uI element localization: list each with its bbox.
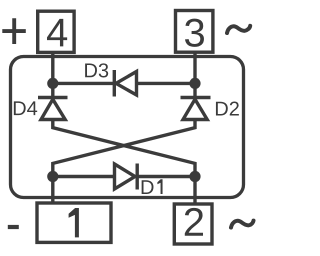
diode D3 triangle (116, 72, 137, 96)
label D1 digit 1 (157, 179, 162, 194)
pin 2 box (174, 204, 212, 244)
wire node AC1 to D2 cathode (193, 83, 196, 97)
wire node minus to pin1 (51, 177, 54, 204)
diode D4 cathode bar (38, 96, 68, 99)
wire pin3 to node AC1 (193, 52, 196, 83)
diode D2 cathode bar (181, 96, 211, 99)
wire pin4 to node plus (51, 52, 54, 83)
wire top rail right (D3 anode to node AC1) (137, 82, 196, 85)
label D2 digit 2 (230, 102, 239, 116)
label D3 letter D (85, 64, 97, 78)
plus symbol (pin 4 polarity) (2, 18, 26, 44)
diode D4 triangle (41, 99, 65, 119)
wire D4 anode to node AC2 (diagonal) (53, 120, 195, 177)
label D4 letter D (14, 101, 26, 115)
wire bottom rail left (node minus to D1 anode) (53, 175, 115, 178)
node AC1 junction dot (189, 78, 200, 89)
label D3 digit 3 (99, 63, 108, 77)
node AC2 junction dot (189, 171, 200, 182)
label D1 letter D (142, 180, 154, 194)
AC tilde symbol (pin 2) (231, 221, 254, 228)
label D4 digit 4 (27, 101, 37, 115)
pin 3 box (176, 11, 213, 53)
node plus junction dot (47, 78, 58, 89)
node minus junction dot (47, 171, 58, 182)
diode D3 cathode bar (113, 70, 116, 97)
pin 1 number (69, 208, 79, 237)
diode D1 triangle (115, 164, 136, 189)
pin 4 number (47, 19, 67, 47)
wire node AC2 to pin2 (193, 177, 196, 205)
label D2 letter D (216, 102, 228, 116)
pin 4 box (38, 11, 74, 52)
wire top rail left (node plus to D3 cathode) (53, 82, 115, 85)
pin 2 number (185, 208, 203, 236)
wire bottom rail right (D1 cathode to node AC2) (137, 175, 195, 178)
minus symbol (pin 1 polarity) (8, 225, 19, 229)
wire node plus to D4 cathode (51, 83, 54, 97)
wire D2 anode to node minus (diagonal) (53, 120, 195, 177)
pin 3 number (185, 19, 204, 47)
pin 1 box (37, 203, 111, 242)
package outline (11, 57, 244, 198)
diode D1 cathode bar (135, 164, 138, 190)
diode D2 triangle (183, 99, 207, 119)
AC tilde symbol (pin 3) (227, 26, 250, 33)
